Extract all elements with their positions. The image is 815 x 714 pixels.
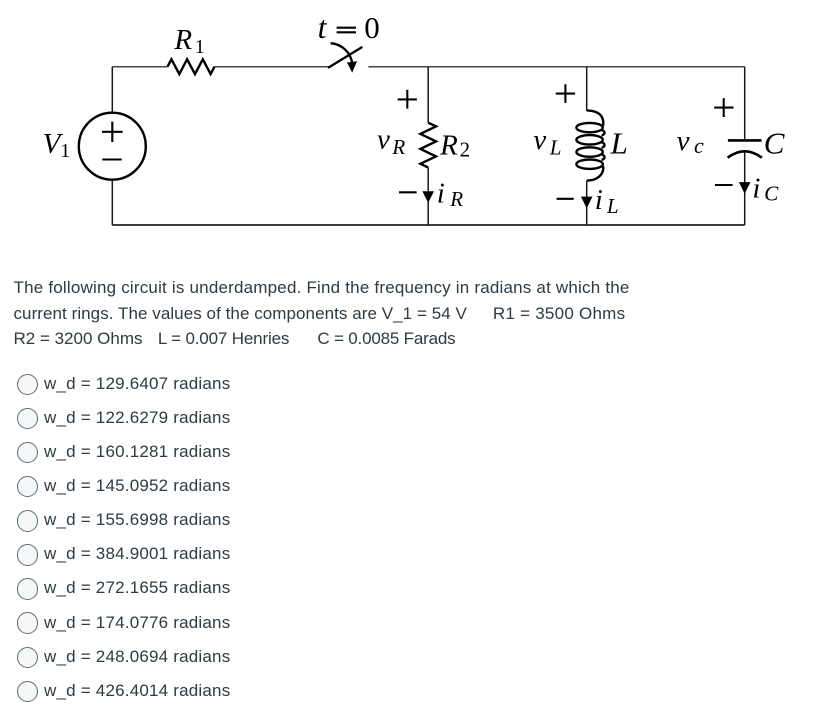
svg-text:v: v bbox=[377, 124, 390, 156]
wire C branch bottom bbox=[744, 153, 746, 225]
svg-text:L: L bbox=[610, 126, 628, 161]
svg-text:v: v bbox=[677, 125, 690, 157]
R2 minus sign bbox=[399, 191, 417, 193]
capacitor C bottom plate (curved) bbox=[728, 151, 762, 157]
resistor R1 bbox=[168, 59, 215, 74]
svg-text:i: i bbox=[752, 173, 760, 205]
svg-text:c: c bbox=[694, 133, 704, 158]
wire switch to top-right corner bbox=[368, 66, 744, 68]
svg-text:2: 2 bbox=[460, 138, 471, 162]
label vc bbox=[677, 125, 704, 158]
label iC bbox=[752, 173, 779, 206]
label iR bbox=[437, 178, 463, 212]
capacitor C top plate bbox=[728, 139, 762, 142]
svg-text:R: R bbox=[439, 130, 458, 162]
switch arrowhead bbox=[347, 61, 357, 72]
svg-text:i: i bbox=[595, 184, 603, 216]
L minus sign bbox=[557, 198, 574, 200]
resistor R2 bbox=[420, 123, 436, 168]
current arrow iR bbox=[422, 191, 434, 202]
svg-text:R: R bbox=[391, 135, 405, 159]
svg-text:i: i bbox=[437, 178, 445, 210]
R2 plus sign bbox=[398, 90, 417, 109]
wire R2 branch bottom bbox=[427, 168, 429, 226]
voltage source V1 circle bbox=[79, 113, 146, 180]
svg-text:R: R bbox=[173, 24, 192, 56]
svg-text:L: L bbox=[549, 135, 562, 159]
wire C branch top bbox=[744, 67, 746, 139]
svg-text:t: t bbox=[318, 9, 328, 45]
inductor L coil bbox=[576, 110, 604, 180]
wire L branch top bbox=[586, 67, 588, 111]
label V1 bbox=[43, 128, 71, 162]
C plus sign bbox=[714, 98, 733, 117]
svg-text:0: 0 bbox=[364, 10, 380, 45]
svg-text:C: C bbox=[764, 126, 785, 161]
label vL bbox=[533, 124, 561, 159]
svg-text:v: v bbox=[533, 124, 546, 156]
label iL bbox=[595, 184, 619, 218]
current arrow iL bbox=[581, 197, 593, 209]
bottom wire bbox=[112, 224, 744, 226]
label R1 bbox=[173, 24, 204, 58]
V1 plus sign bbox=[102, 122, 123, 142]
svg-text:L: L bbox=[606, 194, 619, 218]
switch closing arrow arc bbox=[331, 43, 353, 64]
wire source top bbox=[111, 67, 113, 113]
svg-text:C: C bbox=[764, 182, 779, 206]
wire source bottom bbox=[111, 180, 113, 225]
C minus sign bbox=[715, 184, 733, 186]
svg-text:R: R bbox=[449, 187, 463, 211]
wire R2 branch top bbox=[427, 67, 429, 123]
L plus sign bbox=[556, 84, 575, 103]
wire R1 to switch bbox=[215, 66, 329, 68]
svg-text:1: 1 bbox=[195, 36, 205, 58]
switch blade bbox=[329, 47, 362, 67]
current arrow iC bbox=[739, 182, 751, 194]
label R2 bbox=[439, 130, 470, 162]
label vR bbox=[377, 124, 405, 159]
wire L branch bottom bbox=[586, 181, 588, 225]
wire top left: source to R1 bbox=[112, 66, 167, 68]
label t=0 bbox=[318, 9, 380, 45]
V1 minus sign bbox=[102, 158, 121, 160]
svg-text:1: 1 bbox=[60, 140, 70, 162]
